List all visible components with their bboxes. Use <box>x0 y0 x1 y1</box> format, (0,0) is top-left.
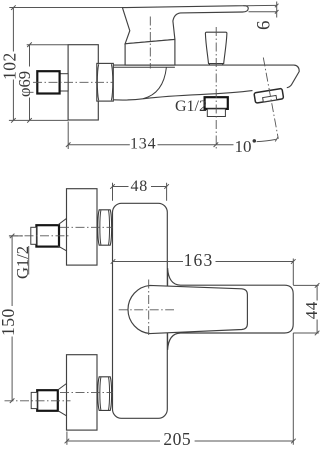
svg-text:163: 163 <box>184 250 214 270</box>
svg-text:44: 44 <box>302 301 321 319</box>
svg-text:G1/2: G1/2 <box>175 98 207 115</box>
svg-text:6: 6 <box>254 21 275 31</box>
svg-text:205: 205 <box>163 429 191 449</box>
svg-text:48: 48 <box>131 178 149 195</box>
svg-text:φ69: φ69 <box>15 71 34 97</box>
svg-text:150: 150 <box>0 308 18 336</box>
svg-text:134: 134 <box>130 135 156 152</box>
svg-text:G1/2: G1/2 <box>13 246 32 279</box>
svg-text:10: 10 <box>235 137 252 156</box>
